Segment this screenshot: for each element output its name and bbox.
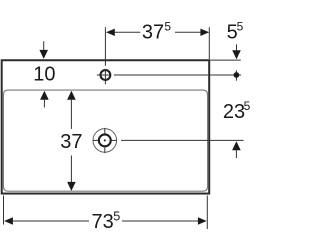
svg-text:23: 23 <box>223 101 245 123</box>
svg-text:5: 5 <box>244 99 250 113</box>
svg-text:73: 73 <box>92 211 114 233</box>
svg-text:5: 5 <box>113 210 120 224</box>
svg-text:37: 37 <box>60 131 82 153</box>
svg-text:37: 37 <box>142 22 164 44</box>
svg-text:5: 5 <box>164 19 171 33</box>
svg-text:5: 5 <box>237 20 244 34</box>
svg-text:10: 10 <box>33 63 55 85</box>
